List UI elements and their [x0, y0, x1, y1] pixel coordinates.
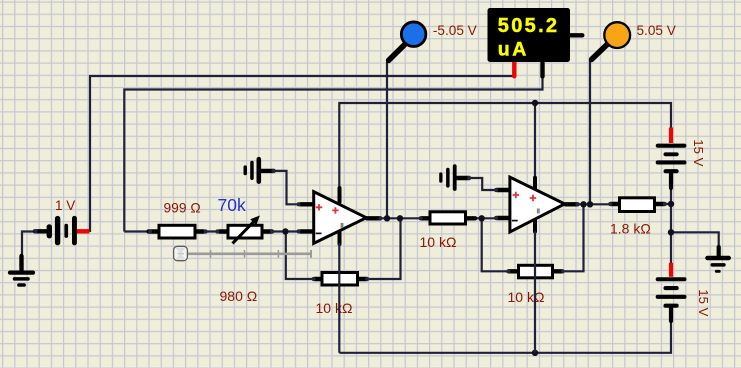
- svg-text:-5.05 V: -5.05 V: [433, 23, 477, 38]
- svg-text:999 Ω: 999 Ω: [164, 201, 201, 216]
- svg-text:10 kΩ: 10 kΩ: [508, 289, 545, 305]
- svg-text:15 V: 15 V: [696, 289, 711, 316]
- svg-text:15 V: 15 V: [691, 139, 706, 166]
- svg-text:10 kΩ: 10 kΩ: [316, 300, 353, 316]
- svg-text:10 kΩ: 10 kΩ: [420, 234, 457, 250]
- svg-text:5.05 V: 5.05 V: [637, 23, 676, 38]
- svg-text:1 V: 1 V: [55, 198, 75, 213]
- svg-text:70k: 70k: [218, 195, 246, 215]
- svg-text:1.8 kΩ: 1.8 kΩ: [610, 220, 651, 236]
- svg-text:980 Ω: 980 Ω: [220, 288, 258, 304]
- svg-text:505.2: 505.2: [498, 15, 560, 37]
- svg-text:uA: uA: [498, 39, 529, 61]
